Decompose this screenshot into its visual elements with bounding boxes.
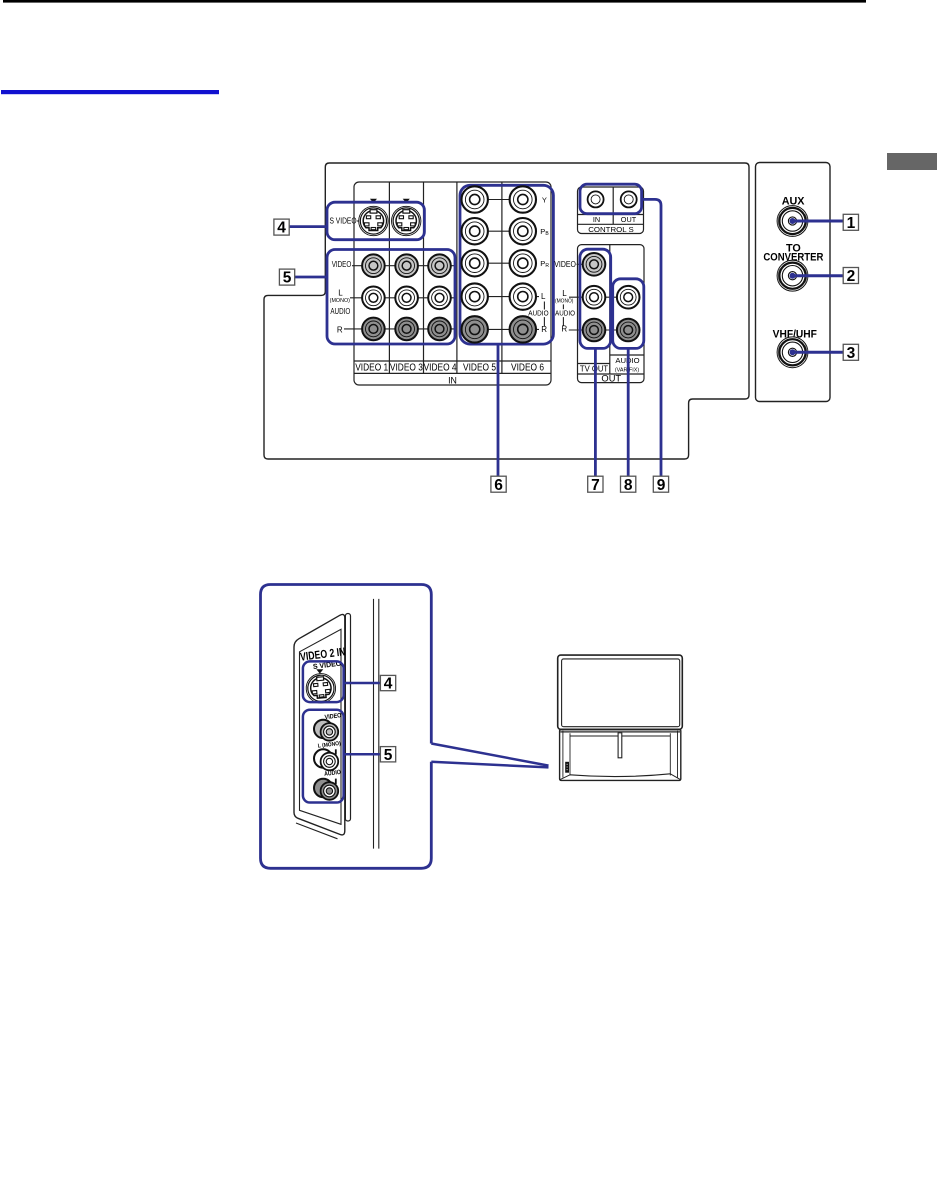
- svg-text:CONTROL S: CONTROL S: [588, 225, 634, 234]
- jack video5 Y: [462, 186, 488, 212]
- tv center stick: [618, 733, 622, 758]
- jack control s out: [621, 191, 637, 207]
- dash S VIDEO to jack: [357, 220, 359, 222]
- svg-text:5: 5: [283, 270, 292, 287]
- svg-text:AUDIO: AUDIO: [330, 307, 350, 316]
- svg-text:2: 2: [847, 268, 856, 285]
- svg-text:VIDEO 6: VIDEO 6: [511, 363, 544, 374]
- jack L side: [314, 749, 338, 770]
- jack tvout L: [583, 286, 606, 309]
- side door outer outline: [294, 614, 345, 834]
- leader line to box 6: [497, 344, 500, 476]
- leader line to box 2: [793, 274, 844, 277]
- callout group 5 frame: [327, 250, 455, 345]
- jack S VIDEO side: [305, 672, 337, 704]
- jack video4 video: [428, 254, 451, 277]
- row line video: [352, 265, 455, 267]
- svg-text:R: R: [561, 325, 567, 334]
- svg-text:L: L: [541, 292, 546, 301]
- number box 2: [843, 268, 858, 286]
- number box 5: [279, 269, 294, 287]
- component row line Y: [475, 199, 537, 201]
- IN table row lines: [354, 361, 551, 373]
- svg-text:Y: Y: [542, 195, 547, 204]
- jack video6 R: [510, 316, 536, 342]
- svg-text:L: L: [562, 289, 567, 298]
- jack video1 L: [362, 287, 385, 310]
- tv base top rail: [570, 735, 670, 737]
- number box 5 side: [380, 747, 395, 764]
- leader line to box 5: [295, 276, 327, 279]
- svg-text:4: 4: [384, 676, 393, 693]
- svg-text:VIDEO 4: VIDEO 4: [424, 363, 457, 374]
- callout group 9 frame: [580, 184, 642, 214]
- leader line to box 3: [793, 351, 844, 354]
- tv base outer: [560, 729, 681, 780]
- CONTROL S row lines: [578, 215, 644, 225]
- svg-text:VIDEO 1: VIDEO 1: [355, 363, 388, 374]
- jack video6 Y: [510, 186, 536, 212]
- leader line to box 1: [793, 220, 844, 223]
- svg-text:R: R: [541, 325, 547, 334]
- side panel callout frame with gap: [261, 585, 432, 869]
- CONTROL S divider: [612, 187, 614, 224]
- tick audio-R component: [543, 317, 545, 326]
- jack video side: [314, 720, 338, 741]
- tvout row line R: [569, 329, 628, 331]
- callout group 4 frame side: [303, 661, 344, 702]
- jack video3 L: [395, 287, 418, 310]
- svg-text:VIDEO 3: VIDEO 3: [390, 363, 423, 374]
- jack VHF/UHF: [776, 337, 809, 368]
- jack video3 video: [395, 254, 418, 277]
- jack video1 R: [362, 318, 385, 341]
- component row line R: [475, 328, 539, 330]
- component row line Pb: [475, 230, 537, 232]
- svg-text:R: R: [337, 326, 343, 335]
- jack video1 video: [362, 254, 385, 277]
- leader line to box 4 side: [344, 682, 381, 685]
- tv base shadow band: [560, 730, 680, 732]
- jack TO CONVERTER: [776, 260, 809, 291]
- leader line to box 4: [289, 225, 327, 228]
- tv cabinet edge double line: [374, 599, 379, 849]
- svg-text:VIDEO 5: VIDEO 5: [463, 363, 496, 374]
- row line R: [344, 328, 455, 330]
- jack S VIDEO video1: [359, 206, 388, 235]
- number box 9: [653, 476, 668, 494]
- callout group 8 frame: [613, 279, 644, 349]
- tick R side: [335, 779, 337, 784]
- jack R side: [314, 779, 338, 800]
- IN table frame: [354, 182, 551, 385]
- side door inner face: [300, 629, 342, 824]
- tick audio-R tvout: [562, 317, 564, 326]
- svg-text:6: 6: [494, 477, 503, 494]
- tvout row line video: [577, 263, 589, 265]
- tvout row line L: [569, 296, 628, 298]
- CONTROL S table frame: [578, 187, 644, 234]
- component row line Pr: [475, 262, 537, 264]
- leader line to box 8: [627, 348, 630, 476]
- tick mono-audio tvout: [562, 304, 564, 309]
- svg-text:1: 1: [847, 215, 856, 232]
- svg-text:VIDEO: VIDEO: [332, 260, 352, 269]
- jack audio var R: [617, 319, 640, 342]
- jack video5 L: [462, 283, 488, 309]
- number box 8: [621, 476, 636, 494]
- number box 7: [588, 476, 603, 494]
- svg-text:VIDEO: VIDEO: [554, 260, 576, 269]
- tv screen inner: [562, 659, 680, 727]
- jack video4 L: [428, 287, 451, 310]
- tick L side: [335, 749, 337, 754]
- leader line to box 7: [594, 348, 597, 476]
- svg-text:7: 7: [591, 477, 600, 494]
- jack audio var L: [617, 286, 640, 309]
- jack AUX: [776, 206, 809, 237]
- tv base bottom curve: [570, 774, 670, 777]
- svg-text:9: 9: [657, 477, 666, 494]
- jack tvout video: [583, 253, 606, 276]
- jack video5 Pb: [462, 218, 488, 244]
- side door bottom edge line: [296, 823, 338, 839]
- jack video5 R: [462, 316, 488, 342]
- leader line to box 5 side: [344, 753, 381, 756]
- side door right bar: [345, 614, 350, 822]
- number box 1: [843, 214, 858, 232]
- callout group 4 frame: [327, 202, 424, 240]
- svg-text:(MONO): (MONO): [555, 298, 574, 304]
- rear case outline: [264, 163, 749, 459]
- top rule bar: [3, 0, 866, 3]
- tick L-audio component: [543, 302, 545, 310]
- marker arrow video1 svideo: [370, 199, 377, 203]
- jack video4 R: [428, 318, 451, 341]
- jack video6 L: [510, 283, 536, 309]
- callout group 7 frame: [580, 249, 611, 348]
- OUT table divider: [609, 245, 611, 374]
- tv base corner lines: [560, 774, 681, 780]
- svg-text:4: 4: [277, 220, 286, 237]
- page edge tab: [887, 153, 937, 170]
- jack tvout R: [583, 319, 606, 342]
- svg-text:(MONO): (MONO): [330, 298, 350, 304]
- jack S VIDEO video3: [392, 206, 421, 235]
- jack video3 R: [395, 318, 418, 341]
- callout group 5 frame side: [303, 710, 344, 803]
- row line L: [350, 297, 455, 299]
- OUT table row lines: [578, 355, 645, 374]
- right antenna panel: [756, 163, 831, 402]
- svg-text:AUDIO: AUDIO: [528, 309, 549, 318]
- svg-text:S VIDEO: S VIDEO: [330, 217, 357, 226]
- leader line to box 9: [642, 199, 661, 476]
- jack video6 Pb: [510, 218, 536, 244]
- OUT table frame: [578, 245, 645, 383]
- svg-text:8: 8: [624, 477, 633, 494]
- jack video5 Pr: [462, 250, 488, 276]
- svg-text:OUT: OUT: [601, 373, 621, 383]
- number box 4 side: [380, 675, 395, 692]
- IN table column dividers: [389, 182, 502, 373]
- svg-text:IN: IN: [593, 215, 600, 224]
- jack control s in: [588, 191, 604, 207]
- number box 6: [491, 476, 506, 494]
- svg-text:L: L: [338, 289, 343, 298]
- svg-text:3: 3: [847, 345, 856, 362]
- svg-text:5: 5: [384, 747, 393, 764]
- number box 4: [274, 219, 289, 237]
- jack video6 Pr: [510, 250, 536, 276]
- tv side jack door: [565, 762, 569, 773]
- title underline: [1, 90, 219, 94]
- pointer wedge upper line: [431, 744, 548, 766]
- marker arrow svideo side: [316, 669, 323, 673]
- svg-text:IN: IN: [448, 375, 457, 385]
- svg-text:OUT: OUT: [621, 215, 637, 224]
- pointer wedge lower line: [431, 762, 548, 768]
- marker arrow video3 svideo: [403, 199, 410, 203]
- tv base inner verticals: [563, 730, 678, 777]
- component row line L: [475, 296, 539, 298]
- number box 3: [843, 344, 858, 362]
- svg-text:AUDIO: AUDIO: [555, 309, 575, 318]
- tv screen outer: [558, 655, 683, 729]
- callout group 6 frame: [460, 185, 553, 344]
